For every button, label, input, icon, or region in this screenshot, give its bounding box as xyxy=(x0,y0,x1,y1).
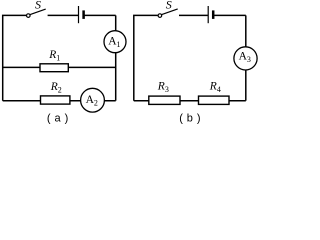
switch S pivot (a) xyxy=(27,14,31,18)
wire: (b) bottom wire xyxy=(134,100,246,102)
wire: (b) top wire left segment + left edge xyxy=(134,15,158,100)
resistor R4 box xyxy=(199,96,230,104)
wire: (b) right edge through A3 xyxy=(245,15,247,100)
ammeter A1 circle xyxy=(104,31,126,53)
svg-text:S: S xyxy=(35,0,41,11)
switch S blade (a) xyxy=(30,9,46,15)
wire: (b) top wire, battery to top-right corner xyxy=(214,14,246,16)
battery negative plate (a) xyxy=(82,10,85,19)
wire: (a) bottom wire xyxy=(3,100,116,102)
svg-text:R3: R3 xyxy=(157,80,169,94)
svg-text:( b ): ( b ) xyxy=(179,112,201,124)
battery positive plate (b) xyxy=(207,6,209,23)
ammeter A2 circle xyxy=(81,88,105,112)
svg-text:R2: R2 xyxy=(50,81,62,95)
wire: (a) top wire, battery to top-right corner xyxy=(84,14,116,16)
resistor R3 box xyxy=(149,96,180,104)
switch S blade (b) xyxy=(162,9,178,15)
ammeter A3 circle xyxy=(234,47,257,70)
svg-text:R1: R1 xyxy=(48,49,60,63)
svg-text:( a ): ( a ) xyxy=(47,112,69,124)
wire: (a) middle branch wire for R1 xyxy=(3,66,116,68)
battery positive plate (a) xyxy=(78,6,80,23)
wire: (a) top wire, switch to battery xyxy=(48,14,79,16)
wire: (a) right edge through A1 down to bottom-right corner xyxy=(115,15,117,100)
svg-text:R4: R4 xyxy=(209,80,221,94)
switch S pivot (b) xyxy=(158,14,162,18)
resistor R2 box xyxy=(41,96,70,104)
svg-text:S: S xyxy=(166,0,172,11)
resistor R1 box xyxy=(40,64,68,72)
wire: (a) top wire left segment + left edge xyxy=(3,15,27,100)
battery negative plate (b) xyxy=(212,10,215,19)
wire: (b) top wire, switch to battery xyxy=(179,14,208,16)
